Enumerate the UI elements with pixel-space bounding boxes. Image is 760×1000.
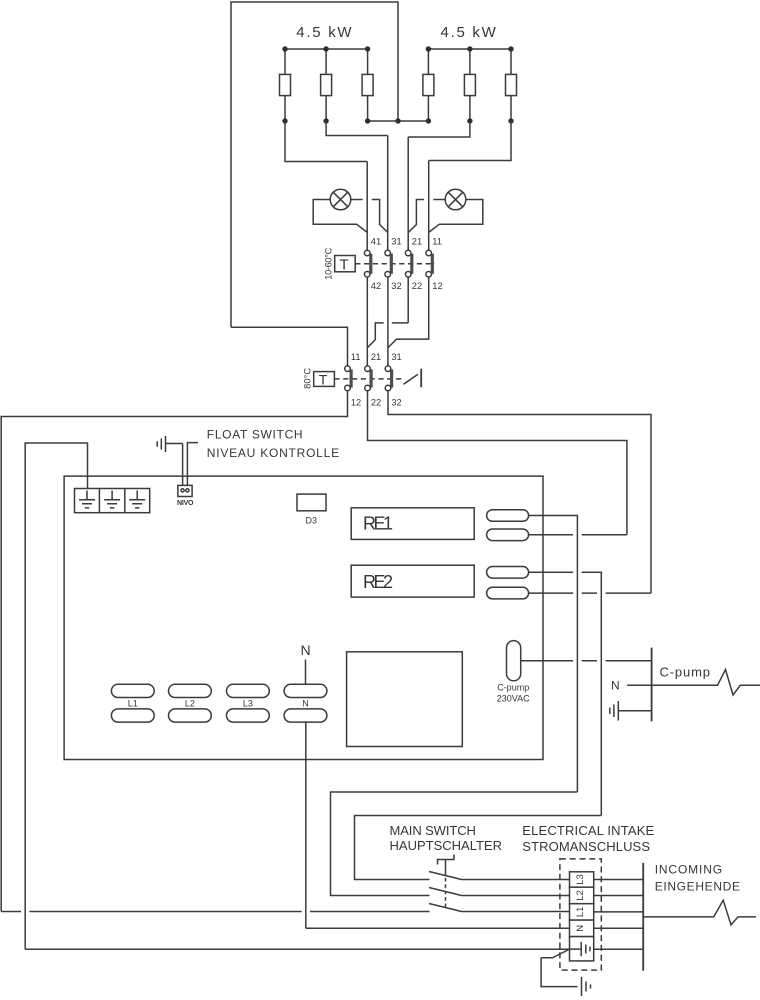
thermostat B1 contact 21-22 [405,250,411,277]
intake terminal dashed box [560,859,601,970]
svg-text:L2: L2 [185,699,195,709]
thermostat B1 dashed link [355,263,435,265]
relay RE2 box [351,565,474,597]
wire E1 to contact 41 jog [285,121,367,162]
wire column 21 down [407,137,409,250]
wire column 31 down [387,136,389,251]
svg-text:4.5 kW: 4.5 kW [441,24,497,41]
lamp H2 left lead with crossing break [408,200,445,233]
svg-text:RE2: RE2 [363,572,393,592]
thermostat B1 contact 41-42 [364,250,370,277]
svg-text:11: 11 [432,237,442,247]
thermostat B2 dashed link [334,378,401,380]
resistor E3 [362,49,373,121]
svg-text:41: 41 [371,237,381,247]
external earth symbol bottom [582,977,591,996]
resistor E5 [464,49,475,121]
NIVO connector [177,485,194,507]
wire top frame [231,2,398,327]
wire incoming cable with continuation squiggle [643,900,756,925]
svg-text:N: N [575,925,586,932]
PE arrow [541,950,569,958]
wire top bus right group [428,48,511,50]
thermostat B2 aux switch [404,369,422,388]
lamp H1 left [330,189,351,210]
wire top bus left group [285,48,368,50]
svg-text:31: 31 [391,237,401,247]
board terminal N pills [284,684,327,722]
svg-text:L3: L3 [243,699,253,709]
junction dots top bus [282,46,513,51]
svg-text:T: T [319,371,328,387]
intake terminal L3 [570,872,594,887]
svg-text:N: N [302,699,309,709]
thermostat B2 contact 11-12 [345,366,351,391]
svg-text:HAUPTSCHALTER: HAUPTSCHALTER [390,838,503,853]
wires intake terminals to cable bar [594,880,644,950]
svg-text:L2: L2 [575,890,586,901]
intake terminal L2 [570,887,594,904]
wire B2-22 down right to RE1 lower terminal [368,391,627,535]
wire RE2 pill1 right then down with break [529,572,602,815]
wire 12 branch to contact 31 of B2 [388,277,429,347]
wire PE row to terminal PE [25,948,569,950]
PCB earth terminal block [75,489,150,513]
svg-text:D3: D3 [306,516,318,526]
wire E6 to contact 11 jog [429,121,511,161]
wire N row to terminal N [306,927,570,929]
svg-text:N: N [611,678,620,692]
thermostat B1 T box [335,256,356,274]
svg-text:NIVO: NIVO [177,500,194,507]
wire PE tail to external earth [541,958,577,987]
svg-text:4.5 kW: 4.5 kW [296,24,352,41]
float switch leads to NIVO [183,443,198,486]
svg-text:31: 31 [391,352,401,362]
C-pump earth symbol [610,701,652,721]
thermostat B2 contact 21-22 [365,366,371,391]
wire 32 down to contact 31 of B2 [387,277,389,366]
resistor E6 [506,49,517,121]
wire switch to terminal L3 [462,879,570,881]
wire B2-32 down right to RE2 lower terminal [388,391,651,593]
main switch Q1 handle [438,855,455,909]
svg-text:12: 12 [432,281,442,291]
C-pump cable bar [651,648,653,722]
thermostat B2 T box [314,371,335,387]
relay RE1 box [351,508,474,540]
svg-text:C-pump: C-pump [660,665,711,680]
wire column 41 down [366,162,368,251]
wire E5 to contact 21 jog [408,121,470,137]
svg-text:11: 11 [351,352,361,362]
wire C-pump N with continuation squiggle [627,670,760,696]
wire L1 row from far left with breaks [1,911,429,913]
wire N pill down to incoming N row [305,722,307,928]
PCB board box [64,476,543,759]
wire RE2 pill2 to vertical riser with breaks [529,592,651,594]
incoming cable bar [642,863,644,971]
junction dots bottom bus [282,118,513,123]
svg-text:ELECTRICAL INTAKE: ELECTRICAL INTAKE [522,823,654,838]
svg-text:32: 32 [391,281,401,291]
wire E2 to contact 31 jog [326,121,388,136]
main switch Q1 blade row L2 [429,888,462,896]
svg-text:RE1: RE1 [363,514,393,534]
PE wire from PCB earth terminal to bottom [25,443,87,949]
svg-text:L1: L1 [128,699,138,709]
lamp H2 right [445,189,466,210]
main switch Q1 blade row L3 [429,872,462,880]
wire RE2 route to switch row L3 [355,816,602,880]
wire column 11 down [428,161,430,251]
component block square on board [347,652,463,747]
float switch earth symbol [157,436,182,452]
main switch Q1 blade row L1 [429,904,462,912]
thermostat B2 contact 31-32 [385,366,391,391]
thermostat B1 contact 31-32 [385,250,391,277]
wire RE1 route to switch row L2 [331,792,578,896]
relay RE1 terminal pill 1 [487,510,529,522]
wire C-pump pill to cable bar with breaks [521,660,652,662]
diode D3 [297,494,326,525]
svg-text:L3: L3 [575,874,586,885]
board terminal L3 pills [227,684,270,722]
svg-text:230VAC: 230VAC [497,694,530,704]
svg-text:21: 21 [371,352,381,362]
svg-text:L1: L1 [575,907,586,918]
wire switch to terminal L2 [462,895,570,897]
svg-text:10-60°C: 10-60°C [324,247,334,279]
wire 22 branch to contact 21 of B2 [367,277,408,347]
C-pump terminal pill on board [497,641,530,704]
svg-text:42: 42 [371,281,381,291]
board terminal L1 pills [111,684,154,722]
intake terminal N [570,920,594,937]
svg-text:STROMANSCHLUSS: STROMANSCHLUSS [522,839,650,854]
wire 42 down to contact 21 of B2 [366,277,368,366]
wire B2-12 to left frame down to main switch L1 row [1,391,347,912]
lamp H1 left lead [313,200,367,233]
wire switch to terminal L1 [462,911,570,913]
resistor E1 [280,49,291,121]
relay RE2 terminal pill 2 [487,587,529,599]
thermostat B1 contact 11-12 [426,250,432,277]
svg-text:21: 21 [412,237,422,247]
wire RE1 pill2 to vertical riser with break [529,534,627,536]
intake terminal L1 [570,904,594,920]
svg-text:22: 22 [412,281,422,291]
relay RE1 terminal pill 2 [487,529,529,541]
svg-text:NIVEAU KONTROLLE: NIVEAU KONTROLLE [207,446,339,460]
svg-text:12: 12 [351,397,361,407]
relay RE2 terminal pill 1 [487,567,529,579]
wire frame to contact 11 of B2 [231,327,348,366]
svg-text:MAIN SWITCH: MAIN SWITCH [390,823,476,838]
lamp H2 right lead [429,200,483,233]
svg-text:INCOMING: INCOMING [655,863,722,877]
wire center bottom bus [368,120,429,122]
board terminal L2 pills [169,684,212,722]
svg-text:T: T [340,256,349,273]
svg-text:80°C: 80°C [303,368,313,389]
wire RE1 pill1 right then down [529,516,578,793]
resistor E4 [423,49,434,121]
svg-text:FLOAT SWITCH: FLOAT SWITCH [207,428,303,442]
svg-text:C-pump: C-pump [497,683,529,693]
svg-text:EINGEHENDE: EINGEHENDE [655,880,740,894]
wire N label to pill [305,660,307,685]
resistor E2 [321,49,332,121]
svg-text:N: N [300,642,310,658]
lamp H1 right lead with crossing break [351,200,388,233]
intake terminal PE with earth glyph [570,937,594,961]
svg-text:22: 22 [371,397,381,407]
svg-text:32: 32 [391,397,401,407]
